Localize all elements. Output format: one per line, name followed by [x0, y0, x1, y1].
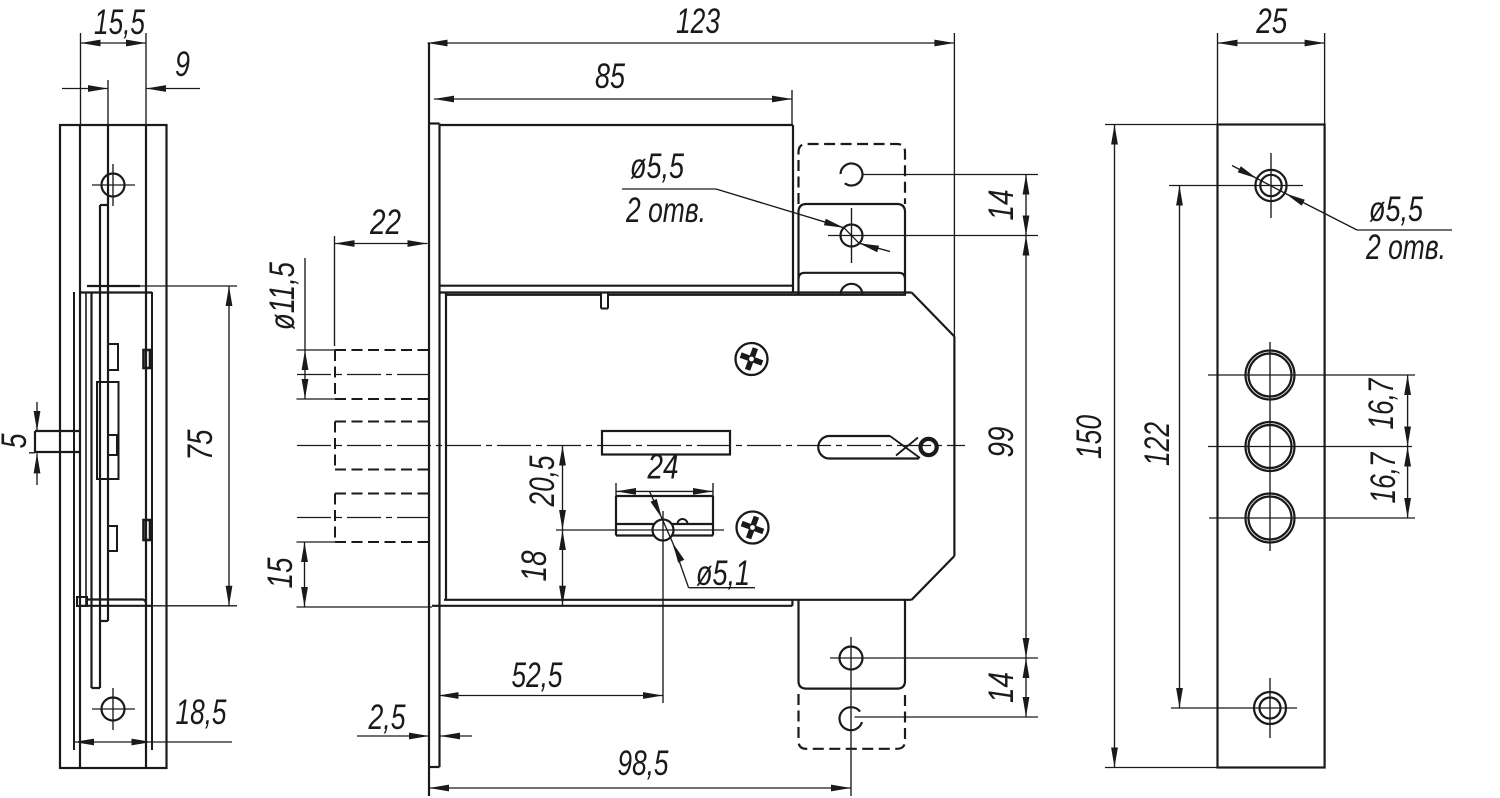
- center view: key pill slot: [818, 436, 828, 459]
- svg-text:52,5: 52,5: [512, 656, 563, 695]
- center view: small pin bump on slot: [678, 519, 688, 524]
- center view: upper case section (85 wide): [440, 124, 794, 126]
- right view: bottom extension line: [1105, 767, 1325, 769]
- dimension 75 (left view case height): [140, 285, 237, 287]
- center view: middle bolt stub (hidden, thrown): [335, 421, 429, 423]
- extension line from lower screw hole down (98,5): [850, 637, 852, 796]
- center view: key pin circle: [921, 439, 937, 455]
- left view: central mechanism box: [97, 382, 119, 479]
- center view: main horizontal axis (dash-dot): [297, 445, 965, 447]
- svg-text:16,7: 16,7: [1364, 451, 1403, 503]
- dimension 9 (left view): [62, 88, 108, 90]
- dimension 52,5 (faceplate to slot hole): [662, 511, 664, 703]
- right view: top extension line: [1105, 124, 1218, 126]
- center view: case left edge: [445, 293, 447, 600]
- center view: case top edge: [440, 291, 912, 293]
- center view: lower bolt axis (dash-dot): [297, 517, 429, 519]
- center view: lower solid tab rounded bottom: [799, 681, 906, 689]
- svg-text:150: 150: [1070, 415, 1109, 459]
- dimension 20,5 (axis to slot center): [562, 446, 564, 531]
- center view: guide slot rectangle (24 wide): [616, 495, 713, 497]
- center view: case right edge: [953, 337, 955, 557]
- left view: inner line x=152 (18.5 reference): [151, 292, 153, 750]
- center view: case top-right chamfer: [912, 293, 955, 337]
- left view: lock case right edge: [145, 125, 147, 768]
- left view: latch block right lower: [144, 520, 151, 540]
- right view: top countersunk screw hole: [1255, 170, 1286, 201]
- center view: faceplate edge-on strip: [428, 43, 430, 796]
- dimension 22 (bolt throw): [334, 236, 336, 346]
- dimension 14 (bottom tab holes spacing): [1025, 658, 1027, 717]
- dimension 25 (faceplate width): [1217, 33, 1219, 125]
- svg-text:18,5: 18,5: [176, 693, 227, 732]
- svg-text:122: 122: [1138, 422, 1177, 466]
- dimension 98,5 (faceplate to lower screw hole): [429, 787, 851, 789]
- dimension 18,5 (left view): [74, 741, 152, 743]
- left view: bottom-left bracket: [77, 597, 87, 606]
- left view: latch block right upper: [144, 350, 151, 368]
- svg-text:24: 24: [647, 448, 679, 487]
- dimension 15 (lower bolt to case bottom): [297, 541, 337, 543]
- center view: slot center hole (5.1): [653, 520, 674, 541]
- right view: upper bolt hole: [1246, 351, 1295, 400]
- center view: lower screw tab sides: [797, 600, 799, 681]
- center view: upper bolt stub (hidden, thrown): [335, 349, 429, 351]
- center view: shallow solid tab rounded top: [799, 273, 906, 279]
- center view: lower bolt stub (hidden, thrown): [335, 493, 429, 495]
- svg-text:75: 75: [181, 429, 220, 460]
- right view: faceplate front rectangle: [1218, 125, 1325, 768]
- left view: bottom screw hole: [102, 698, 125, 721]
- left view: faceplate outer rectangle: [60, 125, 167, 768]
- dimension 24 (slot width): [615, 483, 617, 496]
- left view: inner line x=86: [85, 292, 87, 606]
- dimension 15,5 (left view width of case): [80, 33, 82, 125]
- center view: slot axis line: [556, 529, 724, 531]
- left view: case top edge lines: [87, 285, 140, 287]
- left view: deadbolt tab: [35, 430, 80, 432]
- right view: bolt holes vertical axis: [1269, 342, 1271, 551]
- center view: upper solid tab rounded top: [799, 204, 906, 212]
- label diameter 5,1 (slot hole) with leader: [650, 491, 663, 518]
- svg-text:123: 123: [676, 2, 720, 41]
- svg-text:14: 14: [982, 190, 1021, 221]
- svg-text:20,5: 20,5: [523, 455, 562, 507]
- center view: case bottom-right chamfer: [912, 556, 955, 600]
- left view: case bottom edge lines: [87, 598, 143, 600]
- left view: middle tab lower: [108, 526, 117, 551]
- right view: bottom countersunk screw hole: [1254, 692, 1286, 724]
- center view: lower tab hole (plain circle): [840, 707, 862, 730]
- svg-text:85: 85: [595, 57, 625, 96]
- svg-text:18: 18: [515, 550, 554, 581]
- center view: upper tab screw hole with crosshair: [841, 225, 863, 247]
- dimension 16,7 upper (hole spacing): [1407, 375, 1409, 447]
- dimension 150 (faceplate height): [1114, 125, 1116, 768]
- dimension 122 (screw hole spacing): [1179, 186, 1181, 709]
- svg-text:2 отв.: 2 отв.: [625, 191, 706, 230]
- svg-text:15,5: 15,5: [94, 3, 145, 42]
- left view: cover strip A: [90, 292, 92, 688]
- dimension 2,5 (faceplate thickness): [357, 735, 429, 737]
- dimension 16,7 lower (hole spacing): [1407, 447, 1409, 519]
- svg-text:14: 14: [982, 672, 1021, 703]
- leader lines from tab holes to right dims: [863, 174, 1039, 176]
- center view: case bottom edge: [444, 599, 912, 601]
- svg-text:ø5,5: ø5,5: [630, 147, 684, 186]
- left view: top screw hole: [102, 174, 125, 197]
- center view: lower tab screw hole with crosshair: [840, 647, 863, 670]
- svg-text:2,5: 2,5: [368, 698, 406, 737]
- svg-text:ø11,5: ø11,5: [263, 262, 302, 330]
- svg-text:99: 99: [982, 427, 1021, 458]
- svg-text:15: 15: [261, 557, 300, 588]
- right view: lower bolt hole: [1246, 494, 1295, 543]
- left view: middle tab center: [108, 435, 117, 455]
- center view: upper bolt axis (dash-dot): [297, 374, 429, 376]
- left view: cover strip B: [107, 80, 109, 125]
- right view: middle bolt hole: [1246, 422, 1295, 471]
- dimension 18 (slot center to case bottom): [562, 530, 564, 606]
- center view: lower dashed tab (hidden): [799, 694, 906, 749]
- dimension 99 (screw hole spacing): [1025, 236, 1027, 659]
- center view: upper tab hole (plain circle): [841, 163, 863, 185]
- svg-text:16,7: 16,7: [1362, 377, 1401, 429]
- svg-text:25: 25: [1256, 2, 1288, 41]
- dimension 5 (deadbolt height): [36, 402, 38, 431]
- dimension 123 (overall depth): [953, 33, 955, 337]
- label diameter 5,5 2 holes (right view) with leader: [1232, 166, 1257, 179]
- left view: middle tab upper: [108, 344, 118, 370]
- center view: key pin diagonals: [890, 436, 920, 458]
- dimension diameter 11,5 (bolt): [297, 349, 337, 351]
- svg-text:ø5,5: ø5,5: [1369, 190, 1423, 229]
- center view: bolt bar rectangle: [602, 431, 730, 455]
- center view: upper screw tab sides: [797, 212, 799, 295]
- left view: inner line x=74 (18.5 reference): [73, 292, 75, 750]
- center view: upper phillips screw: [736, 343, 768, 375]
- svg-text:22: 22: [369, 203, 401, 242]
- svg-text:98,5: 98,5: [618, 744, 669, 783]
- svg-text:9: 9: [175, 45, 190, 84]
- center view: half-hidden hole at case edge: [841, 284, 863, 295]
- svg-text:ø5,1: ø5,1: [696, 554, 750, 593]
- center view: lower phillips screw: [737, 512, 769, 544]
- svg-text:2 отв.: 2 отв.: [1365, 228, 1446, 267]
- left view: lock case left edge: [79, 125, 81, 768]
- center view: upper dashed tab (hidden): [799, 144, 906, 204]
- center view: small notch tab: [600, 293, 602, 309]
- dimension 14 (top tab holes spacing): [1025, 175, 1027, 236]
- svg-text:5: 5: [0, 433, 34, 448]
- dimension 85 (upper section depth): [791, 90, 793, 125]
